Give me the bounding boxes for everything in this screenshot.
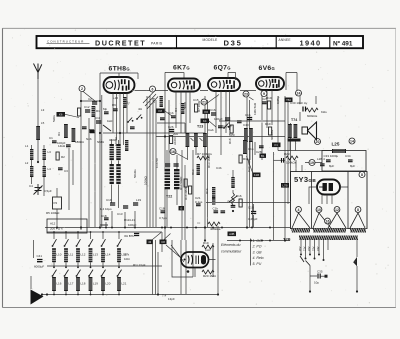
svg-text:L3: L3 (41, 108, 45, 112)
svg-text:23: 23 (244, 92, 248, 96)
svg-text:P2: P2 (54, 201, 58, 205)
svg-text:100kΩs: 100kΩs (286, 161, 297, 165)
svg-text:10Ω: 10Ω (124, 257, 130, 261)
svg-text:C18: C18 (101, 214, 107, 218)
svg-text:PARIS: PARIS (151, 41, 163, 45)
svg-text:T50: T50 (286, 98, 291, 102)
svg-text:C30 10pF Ay: C30 10pF Ay (290, 101, 308, 105)
svg-text:C4: C4 (29, 184, 33, 188)
svg-text:T74: T74 (291, 118, 297, 122)
svg-text:R19: R19 (266, 96, 272, 100)
svg-text:C4b: C4b (216, 166, 222, 170)
svg-text:2μs: 2μs (173, 132, 178, 136)
svg-text:L2: L2 (25, 161, 29, 165)
svg-text:6V6G: 6V6G (259, 65, 276, 72)
svg-text:R13: R13 (191, 169, 195, 175)
svg-text:C14 50: C14 50 (155, 158, 159, 168)
svg-text:R20 1MΩ: R20 1MΩ (203, 274, 217, 278)
svg-text:R14 2kΩs: R14 2kΩs (184, 186, 188, 200)
svg-text:16: 16 (326, 219, 330, 223)
svg-text:180kΩ: 180kΩ (75, 140, 85, 144)
svg-text:C13: C13 (117, 212, 123, 216)
svg-text:8: 8 (361, 173, 363, 177)
svg-text:R7 100k: R7 100k (197, 100, 201, 112)
svg-text:L12: L12 (80, 253, 85, 257)
svg-text:19: 19 (310, 161, 314, 165)
svg-text:8: 8 (357, 208, 359, 212)
svg-text:R2: R2 (61, 155, 65, 159)
svg-text:3Ω B7k: 3Ω B7k (124, 234, 134, 238)
svg-text:100kΩ: 100kΩ (144, 175, 148, 185)
svg-text:4. Relo: 4. Relo (253, 256, 264, 260)
svg-text:L1: L1 (25, 144, 29, 148)
svg-text:L3: L3 (48, 150, 52, 154)
svg-text:L21: L21 (121, 282, 126, 286)
svg-text:R16: R16 (236, 194, 242, 198)
svg-text:24: 24 (297, 91, 301, 95)
svg-text:50kΩ: 50kΩ (183, 101, 187, 109)
svg-text:T21: T21 (117, 174, 121, 180)
svg-text:100pF: 100pF (128, 223, 137, 227)
svg-text:L17: L17 (68, 282, 73, 286)
svg-text:A12: A12 (50, 222, 56, 226)
svg-text:R1: R1 (96, 109, 100, 113)
svg-text:Mp: Mp (103, 107, 107, 111)
svg-text:R23: R23 (284, 152, 290, 156)
svg-text:14: 14 (350, 139, 354, 143)
svg-text:5kΩs: 5kΩs (52, 115, 56, 122)
svg-text:6: 6 (152, 87, 154, 91)
svg-text:K6: K6 (205, 110, 209, 114)
svg-text:L20: L20 (105, 282, 110, 286)
svg-text:12: 12 (335, 208, 339, 212)
svg-text:T23: T23 (197, 125, 203, 129)
svg-text:T2B: T2B (283, 237, 291, 242)
svg-text:6TH8G: 6TH8G (109, 66, 131, 73)
svg-text:6K7G: 6K7G (173, 65, 190, 72)
svg-text:L14: L14 (105, 253, 110, 257)
svg-text:T22: T22 (166, 195, 172, 199)
svg-text:600kΩs: 600kΩs (307, 114, 318, 118)
svg-text:L13: L13 (93, 253, 98, 257)
svg-text:2. PO: 2. PO (252, 245, 262, 249)
svg-text:CONSTRUCTEUR: CONSTRUCTEUR (47, 39, 84, 43)
svg-text:KΩs: KΩs (321, 110, 327, 114)
svg-text:2: 2 (81, 87, 83, 91)
svg-text:10μ: 10μ (314, 281, 319, 285)
svg-text:L25: L25 (332, 142, 340, 147)
svg-text:43: 43 (148, 240, 152, 244)
svg-text:C2: C2 (88, 97, 92, 101)
svg-text:1940: 1940 (300, 39, 322, 48)
svg-text:Cab: Cab (208, 128, 214, 132)
svg-text:13pF: 13pF (168, 297, 175, 301)
svg-text:C34: C34 (345, 154, 351, 158)
svg-text:≈≈: ≈≈ (197, 221, 201, 225)
svg-text:C1b: C1b (168, 111, 174, 115)
svg-text:DUCRETET: DUCRETET (95, 39, 146, 48)
svg-text:1kΩ: 1kΩ (107, 119, 113, 123)
svg-text:6000μF: 6000μF (34, 265, 44, 269)
svg-text:C20: C20 (229, 133, 235, 137)
svg-text:22V: 22V (308, 246, 311, 251)
svg-text:C33 1000μ: C33 1000μ (324, 154, 339, 158)
svg-text:7,4: 7,4 (162, 294, 167, 298)
svg-text:C1b: C1b (245, 113, 251, 117)
svg-text:Nº 491: Nº 491 (333, 40, 353, 47)
svg-text:100kΩ: 100kΩ (114, 136, 118, 146)
svg-text:L10: L10 (56, 253, 61, 257)
svg-text:C3: C3 (64, 169, 68, 173)
svg-text:200 pF: 200 pF (223, 125, 233, 129)
svg-text:20: 20 (316, 140, 320, 144)
svg-text:R17 50kΩ: R17 50kΩ (179, 176, 183, 190)
svg-text:16: 16 (171, 150, 175, 154)
svg-text:24V: 24V (317, 246, 320, 251)
svg-text:1,4 10μs: 1,4 10μs (100, 207, 112, 211)
svg-text:MODELE: MODELE (203, 38, 218, 42)
svg-text:R11/L13: R11/L13 (124, 218, 135, 222)
svg-text:1kΩ: 1kΩ (205, 248, 211, 252)
svg-text:50kΩs: 50kΩs (133, 169, 137, 178)
svg-text:C1ρ: C1ρ (248, 147, 254, 151)
svg-text:K1B: K1B (254, 173, 259, 177)
svg-text:C16: C16 (210, 108, 216, 112)
svg-text:K6: K6 (59, 113, 63, 117)
svg-text:C35: C35 (317, 270, 323, 274)
svg-text:C1B: C1B (248, 206, 254, 210)
svg-text:9: 9 (263, 92, 265, 96)
svg-text:R7 100kΩs: R7 100kΩs (197, 152, 212, 156)
svg-text:ANNEE: ANNEE (279, 38, 291, 42)
svg-text:N4b: N4b (86, 137, 92, 141)
svg-text:C1B: C1B (159, 207, 165, 211)
svg-text:L7B: L7B (283, 184, 288, 188)
svg-text:C1b: C1b (213, 207, 219, 211)
svg-text:R19: R19 (265, 122, 271, 126)
svg-text:20V: 20V (299, 246, 302, 251)
svg-text:100pF: 100pF (57, 141, 66, 145)
svg-text:R3: R3 (57, 132, 61, 136)
svg-text:3. GB: 3. GB (253, 250, 263, 254)
svg-text:23V: 23V (313, 246, 316, 251)
svg-text:A3B: A3B (229, 232, 234, 236)
svg-text:8μF: 8μF (350, 164, 355, 168)
svg-text:R9: R9 (112, 103, 116, 107)
svg-text:21: 21 (202, 100, 206, 104)
svg-text:L19: L19 (136, 198, 141, 202)
svg-text:1Mb 5kΩ: 1Mb 5kΩ (253, 102, 257, 115)
svg-text:B7k: B7k (124, 253, 130, 257)
svg-text:K4: K4 (203, 119, 207, 123)
svg-text:4: 4 (298, 208, 300, 212)
svg-text:400kΩa: 400kΩa (210, 227, 221, 231)
svg-text:R5 100kΩ: R5 100kΩ (46, 211, 60, 215)
svg-text:L5: L5 (41, 121, 45, 125)
svg-text:R1b: R1b (205, 188, 209, 194)
svg-text:R4: R4 (174, 108, 178, 112)
svg-text:L19: L19 (93, 282, 98, 286)
svg-text:100μF: 100μF (214, 117, 223, 121)
svg-text:C41: C41 (37, 254, 43, 258)
svg-text:L16: L16 (113, 96, 118, 100)
svg-text:B1: B1 (261, 154, 265, 158)
svg-text:R1\ 13μF: R1\ 13μF (133, 263, 146, 267)
svg-text:0,5μF: 0,5μF (44, 189, 52, 193)
svg-text:commutateur: commutateur (221, 250, 242, 254)
svg-text:5. PU: 5. PU (253, 262, 262, 266)
svg-text:600kΩs: 600kΩs (270, 129, 274, 140)
svg-text:C40: C40 (243, 123, 249, 127)
svg-text:1. OC: 1. OC (253, 239, 263, 243)
svg-text:C12: C12 (84, 105, 90, 109)
svg-text:21V: 21V (304, 246, 307, 251)
svg-text:L11: L11 (68, 253, 73, 257)
svg-text:L16: L16 (56, 282, 61, 286)
svg-text:C11: C11 (95, 116, 101, 120)
svg-text:L18: L18 (80, 282, 85, 286)
svg-text:6Q7G: 6Q7G (214, 65, 232, 72)
svg-text:8μF: 8μF (329, 164, 334, 168)
svg-text:K8: K8 (159, 109, 163, 113)
svg-text:L4: L4 (48, 167, 52, 171)
svg-text:NMΩ: NMΩ (97, 140, 105, 144)
svg-text:C19: C19 (106, 198, 112, 202)
svg-text:L14: L14 (152, 98, 156, 103)
svg-text:C8: C8 (161, 240, 165, 244)
svg-text:10: 10 (317, 208, 321, 212)
svg-text:Eléments du: Eléments du (221, 243, 241, 247)
svg-text:C26: C26 (168, 125, 174, 129)
svg-text:A10Ω: A10Ω (173, 137, 177, 145)
svg-text:0,1μs: 0,1μs (195, 200, 203, 204)
svg-text:D35: D35 (224, 38, 243, 47)
svg-text:C1: C1 (49, 136, 53, 140)
svg-text:3,7μρ: 3,7μρ (159, 216, 167, 220)
